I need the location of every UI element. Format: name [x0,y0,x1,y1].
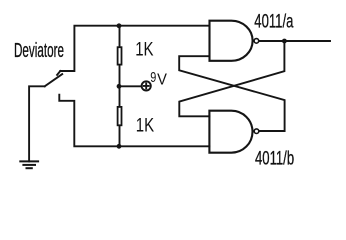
junction dot top rail [117,23,122,28]
wire gate A output cross-coupled to gate B input 1 [179,41,284,116]
wire gate A output [260,40,330,42]
switch upper contact barb [57,71,60,75]
svg-text:Deviatore: Deviatore [14,38,64,61]
wire resistor lower lead [119,126,121,147]
gate B output bubble [254,129,259,134]
wire mid junction to +9V terminal [119,85,141,87]
junction dot mid rail [117,84,122,89]
gate A output bubble [254,39,259,44]
svg-text:1K: 1K [136,115,155,136]
NAND gate U1b 4011/b body [209,111,258,153]
junction dot gate A output [282,39,287,44]
op-amp-style NAND gate U1a 4011/a body [210,21,259,61]
svg-text:1K: 1K [135,39,154,60]
junction dot bottom rail [117,144,122,149]
wire lower contact to bottom rail to gate B input 2 [59,95,209,147]
resistor R1 1K body [118,47,122,64]
svg-text:V: V [157,71,168,89]
wire top rail from switch upper contact to gate A input 1 [60,26,209,71]
ground symbol [19,161,39,168]
svg-text:4011/b: 4011/b [255,148,294,169]
wire gate B output up-cross to gate A input 2 [179,56,284,131]
svg-text:9: 9 [150,68,156,85]
wire resistor middle leads [119,65,121,107]
wire switch pole to ground [29,86,45,161]
resistor R2 1K body [118,107,122,125]
svg-text:4011/a: 4011/a [254,11,294,32]
wire resistor branch upper lead [119,26,121,47]
switch SW1 lever (Deviatore) [45,74,63,86]
power terminal +9V circle-plus [142,81,151,90]
